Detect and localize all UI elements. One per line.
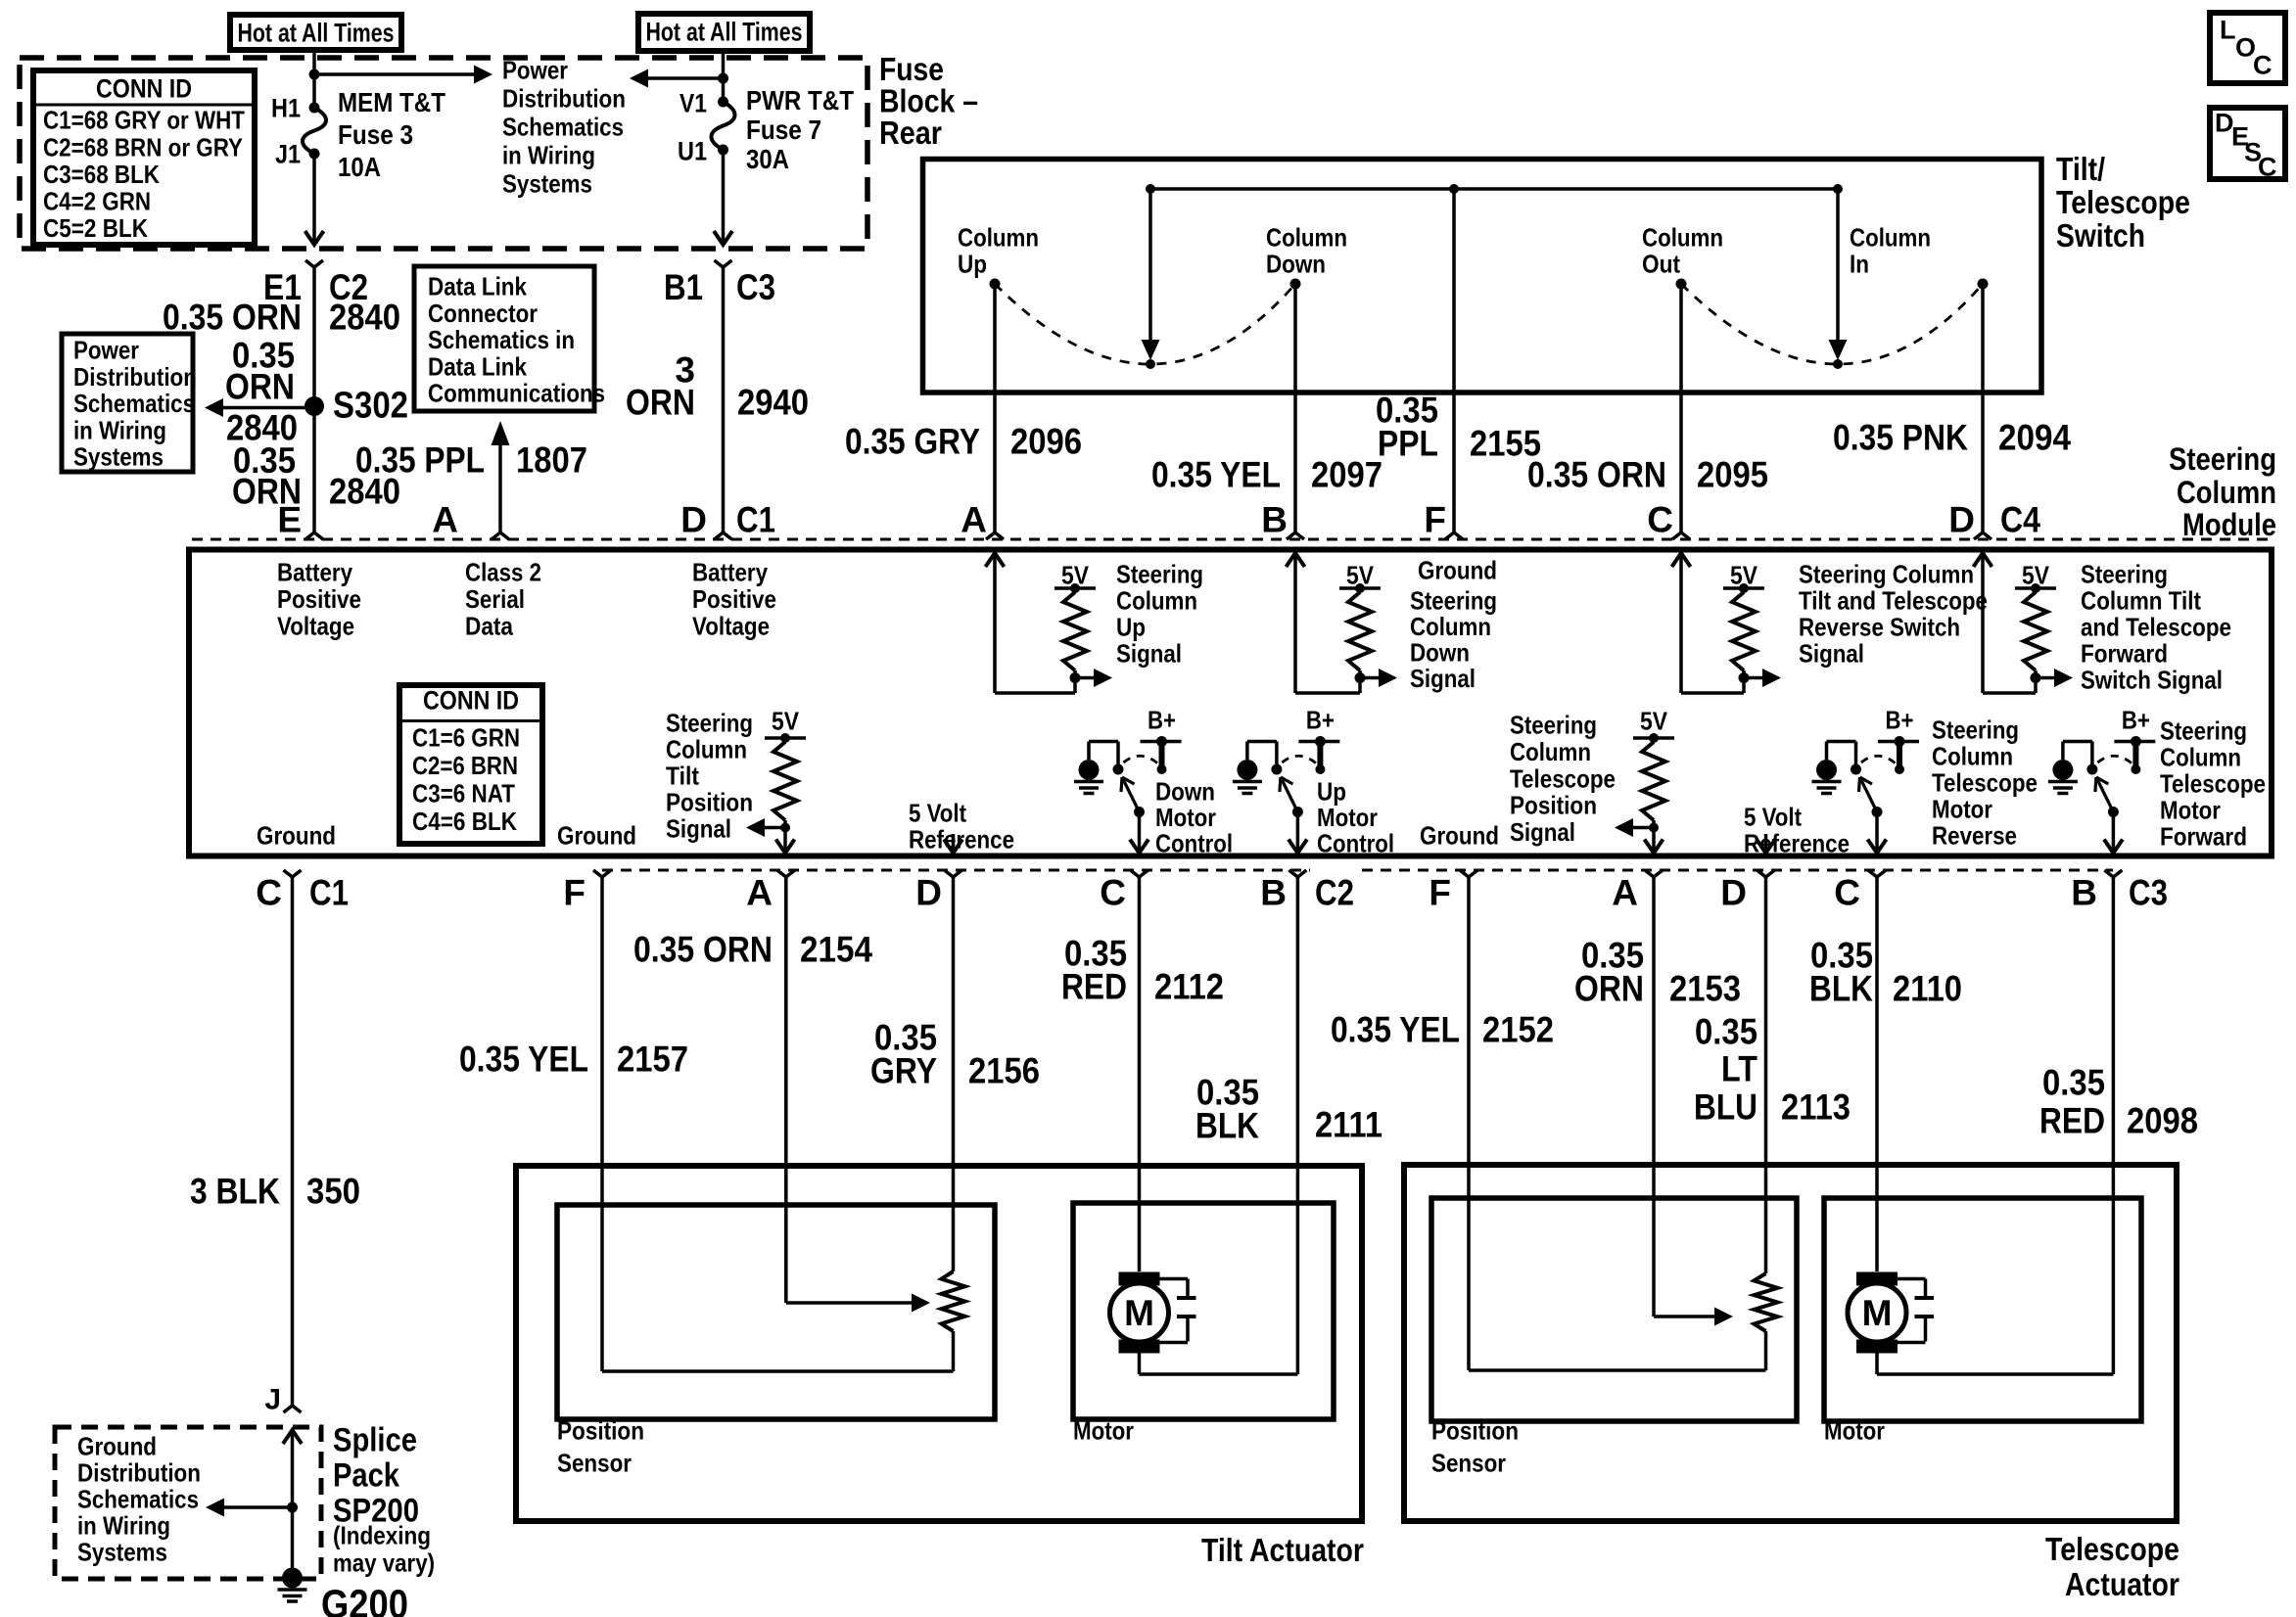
wire 0.35 ORN 2153 (A2) (1652, 877, 1656, 1317)
svg-text:L: L (2220, 15, 2236, 44)
svg-text:2097: 2097 (1311, 455, 1382, 495)
terminal F bottom (563, 870, 611, 913)
label 3 BLK / 350 (190, 1172, 360, 1212)
svg-text:Signal: Signal (1116, 639, 1182, 669)
svg-text:Column: Column (1510, 737, 1591, 766)
fuse F3 MEM T&T (303, 103, 326, 160)
svg-text:RED: RED (1061, 967, 1127, 1007)
svg-text:C: C (1834, 873, 1860, 913)
svg-text:Up: Up (1116, 613, 1146, 642)
telescope motor return wire (1877, 1353, 2113, 1374)
svg-text:MEM T&T: MEM T&T (338, 87, 445, 117)
svg-text:D: D (1948, 500, 1975, 540)
telescope position sensor resistor (1755, 1273, 1778, 1370)
svg-text:Systems: Systems (77, 1538, 167, 1567)
wire fuse7 down to connector (714, 150, 732, 245)
contact Column Up (958, 223, 1039, 290)
resistor pullup forward switch signal (2015, 561, 2073, 687)
svg-text:C1=6 GRN: C1=6 GRN (412, 723, 520, 753)
connector J (284, 1406, 302, 1412)
label 0.35 YEL / 2097 (1151, 455, 1382, 495)
switch internal bus wire (1150, 187, 1838, 191)
svg-text:10A: 10A (338, 152, 381, 182)
tilt position sensor resistor (942, 1271, 965, 1371)
label Motor tilt (1073, 1416, 1134, 1446)
svg-text:Data Link: Data Link (428, 351, 527, 381)
label Steering Column Module (2169, 441, 2276, 542)
svg-text:U1: U1 (678, 136, 707, 165)
svg-text:B+: B+ (1886, 706, 1914, 735)
svg-text:and Telescope: and Telescope (2081, 613, 2231, 642)
svg-text:C3=68 BLK: C3=68 BLK (43, 160, 160, 189)
svg-text:Steering: Steering (1932, 716, 2019, 745)
svg-text:Schematics: Schematics (73, 389, 195, 418)
svg-text:Ground: Ground (77, 1432, 157, 1461)
label indexing may vary (333, 1521, 435, 1578)
svg-text:in Wiring: in Wiring (73, 415, 166, 444)
wire 3 ORN 2940 (722, 267, 726, 532)
svg-text:F: F (1429, 873, 1451, 913)
svg-text:5 Volt: 5 Volt (1744, 803, 1802, 832)
terminal E (277, 500, 323, 540)
svg-text:2094: 2094 (1998, 418, 2071, 458)
svg-text:2096: 2096 (1010, 422, 1082, 462)
svg-text:Sensor: Sensor (557, 1449, 632, 1478)
svg-text:Column: Column (666, 735, 747, 764)
label 0.35 PNK / 2094 (1833, 418, 2071, 458)
svg-text:ORN: ORN (1574, 969, 1644, 1009)
label Tilt/Telescope Switch (2056, 151, 2190, 254)
svg-text:Column: Column (1642, 223, 1723, 253)
wire arrow to Power Distribution Schematics (314, 66, 492, 84)
svg-text:C3: C3 (736, 267, 775, 307)
svg-text:V1: V1 (679, 88, 707, 117)
wire to pullup A (995, 678, 1075, 694)
svg-text:2110: 2110 (1893, 969, 1962, 1009)
wire 0.35 YEL 2097 (1293, 284, 1297, 532)
label Steering Column Tilt Position Signal (666, 709, 753, 844)
svg-text:Steering: Steering (666, 709, 753, 738)
tilt/telescope switch box (923, 160, 2042, 393)
svg-text:Power: Power (502, 56, 568, 85)
svg-text:Signal: Signal (1510, 817, 1575, 847)
terminal D-C1 (680, 500, 775, 540)
label Telescope Actuator (2045, 1531, 2179, 1602)
svg-text:C5=2 BLK: C5=2 BLK (43, 213, 148, 243)
wire fuse3 down to connector (305, 154, 324, 245)
wire 0.35 GRY 2096 (993, 284, 997, 532)
svg-text:0.35 YEL: 0.35 YEL (459, 1039, 588, 1080)
svg-text:Column: Column (1850, 223, 1931, 253)
wire arrow to power distribution schematics box (205, 398, 314, 417)
wire 0.35 PPL 2155 (1452, 189, 1456, 532)
label Steering Column Down Signal (1410, 586, 1497, 694)
switch down motor control (1074, 706, 1182, 854)
ground distribution dashed box (55, 1427, 321, 1579)
svg-text:A: A (432, 500, 458, 540)
resistor telescope position signal (1615, 707, 1674, 854)
svg-text:B: B (2071, 873, 2097, 913)
telescope sensor ground leg (1469, 1368, 1766, 1372)
svg-text:C2=68 BRN or GRY: C2=68 BRN or GRY (43, 132, 243, 162)
svg-text:Motor: Motor (1317, 803, 1378, 832)
wire arrow left to Power Distribution (630, 69, 724, 88)
svg-text:0.35 ORN: 0.35 ORN (163, 298, 302, 338)
svg-text:Ground: Ground (557, 821, 636, 851)
svg-text:In: In (1850, 250, 1869, 279)
svg-text:B1: B1 (664, 267, 703, 307)
svg-text:Up: Up (1317, 777, 1346, 807)
label Class 2 Serial Data (465, 558, 541, 641)
svg-text:0.35 ORN: 0.35 ORN (633, 930, 773, 970)
resistor pullup reverse switch signal (1723, 561, 1781, 687)
wire 0.35 PPL 1807 with up arrow (492, 421, 510, 532)
svg-text:C3: C3 (2129, 873, 2168, 913)
svg-text:may vary): may vary) (333, 1548, 435, 1578)
svg-text:Connector: Connector (428, 299, 538, 328)
telescope actuator box (1404, 1165, 2177, 1521)
label Steering Column Telescope Motor Forward (2160, 716, 2266, 852)
label Motor telescope (1824, 1416, 1885, 1446)
wire 0.35 RED 2112 (C) (1138, 877, 1142, 1271)
svg-text:Schematics in: Schematics in (428, 325, 575, 354)
label 0.35 ORN stack (225, 336, 295, 407)
svg-text:5 Volt: 5 Volt (909, 799, 966, 828)
svg-text:in Wiring: in Wiring (502, 141, 595, 170)
svg-text:ORN: ORN (225, 367, 295, 407)
svg-text:BLK: BLK (1809, 969, 1873, 1009)
telescope sensor wiper arrow (1654, 1308, 1733, 1326)
DESC box (2210, 108, 2285, 181)
svg-text:C: C (2253, 50, 2273, 79)
svg-text:2153: 2153 (1669, 969, 1741, 1009)
svg-text:Battery: Battery (277, 558, 352, 587)
wire to pullup D (1983, 678, 2036, 694)
svg-text:30A: 30A (746, 144, 789, 174)
svg-text:Down: Down (1155, 777, 1215, 807)
label 2840 / 0.35 / ORN stack (226, 408, 302, 512)
svg-text:C4=2 GRN: C4=2 GRN (43, 187, 151, 216)
svg-text:Up: Up (958, 250, 987, 279)
svg-text:Sensor: Sensor (1431, 1449, 1506, 1478)
svg-text:1807: 1807 (516, 440, 587, 481)
svg-text:Column: Column (1410, 612, 1491, 641)
svg-text:Steering: Steering (2169, 441, 2276, 477)
svg-text:F: F (563, 873, 586, 913)
label Battery Positive Voltage 2 (692, 558, 776, 641)
wire 0.35 BLK 2111 (B) (1296, 877, 1300, 1374)
svg-text:Motor: Motor (1155, 803, 1216, 832)
svg-text:2111: 2111 (1315, 1105, 1382, 1145)
label Up Motor Control (1317, 777, 1394, 858)
svg-text:Positive: Positive (692, 584, 776, 614)
svg-text:0.35 PNK: 0.35 PNK (1833, 418, 1968, 458)
svg-text:Steering Column: Steering Column (1799, 560, 1974, 589)
svg-text:Rear: Rear (879, 115, 942, 151)
svg-text:H1: H1 (271, 93, 301, 122)
terminal A bottom (746, 870, 795, 913)
svg-text:G200: G200 (321, 1581, 408, 1617)
svg-text:Hot at All Times: Hot at All Times (646, 17, 803, 46)
svg-text:Serial: Serial (465, 584, 525, 614)
svg-text:Ground: Ground (1418, 556, 1497, 585)
label 3 / ORN / 2940 (626, 350, 809, 423)
label 0.35 YEL / 2157 (459, 1039, 688, 1080)
svg-text:D: D (680, 500, 707, 540)
svg-text:Distribution: Distribution (502, 84, 626, 114)
connector B1-C3 (664, 260, 775, 307)
wire 0.35 LT BLU 2113 (D2) (1764, 877, 1768, 1273)
svg-text:2154: 2154 (800, 930, 872, 970)
svg-text:Telescope: Telescope (1932, 768, 2038, 798)
switch telescope motor reverse (1812, 706, 1920, 854)
label Fuse Block - Rear (879, 51, 978, 151)
svg-text:Motor: Motor (1073, 1416, 1134, 1446)
tilt motor return wire (1140, 1353, 1298, 1374)
svg-text:C: C (256, 873, 282, 913)
svg-text:CONN ID: CONN ID (96, 73, 192, 103)
terminal A2 bottom (1612, 870, 1663, 913)
label 0.35 RED / 2098 (2039, 1063, 2198, 1141)
power distribution schematics box (62, 334, 197, 472)
label 0.35 ORN / 2840 (163, 298, 400, 338)
label Steering Column Tilt and Telescope Forward Switch Signal (2081, 560, 2231, 695)
svg-text:Actuator: Actuator (2065, 1566, 2179, 1602)
module input chevron column up (986, 552, 1005, 693)
svg-text:B+: B+ (1148, 706, 1176, 735)
motor M telescope (1848, 1272, 1934, 1354)
splice S302 (305, 396, 324, 416)
svg-text:B: B (1261, 500, 1288, 540)
svg-text:Position: Position (666, 788, 753, 817)
contact Column In (1850, 223, 1989, 290)
svg-text:2940: 2940 (737, 383, 809, 423)
label 0.35 BLK / 2111 (1195, 1073, 1382, 1146)
tilt sensor ground leg (602, 1369, 954, 1373)
hot at all times box 1 (230, 15, 401, 50)
ground G200 (278, 1568, 307, 1602)
svg-text:Telescope: Telescope (2160, 769, 2266, 799)
svg-text:2840: 2840 (329, 298, 400, 338)
fuse F7 PWR T&T (712, 97, 735, 156)
svg-text:ORN: ORN (626, 383, 695, 423)
svg-text:Hot at All Times: Hot at All Times (238, 18, 395, 47)
label 2840 right (329, 472, 400, 512)
svg-text:B+: B+ (1306, 706, 1335, 735)
label Power Distribution Schematics in Wiring Systems (502, 56, 626, 199)
connector C3 dashed line (1362, 869, 2113, 872)
label 0.35 ORN / 2095 (1527, 455, 1768, 495)
svg-text:2152: 2152 (1482, 1010, 1554, 1050)
label Splice Pack SP200 (333, 1422, 419, 1530)
junction node wire1 (309, 69, 320, 80)
pin H1 (271, 93, 301, 122)
fuse block - rear dashed box (20, 58, 867, 249)
wire 0.35 RED 2098 (B2) (2112, 877, 2116, 1374)
svg-text:0.35 YEL: 0.35 YEL (1331, 1010, 1460, 1050)
svg-text:2112: 2112 (1154, 967, 1224, 1007)
tilt actuator box (516, 1166, 1362, 1521)
svg-text:D: D (915, 873, 942, 913)
terminal B2 bottom (2071, 870, 2168, 913)
svg-text:Telescope: Telescope (2045, 1531, 2179, 1567)
wire 0.35 GRY 2156 (D) (952, 877, 956, 1271)
module input chevron column down (1287, 552, 1305, 693)
contact Column Out (1642, 223, 1723, 290)
svg-text:Tilt and Telescope: Tilt and Telescope (1799, 586, 1988, 616)
svg-text:Position: Position (1431, 1416, 1519, 1446)
splice junction SP200 (287, 1502, 298, 1513)
svg-text:Signal: Signal (666, 814, 731, 844)
svg-text:3 BLK: 3 BLK (190, 1172, 280, 1212)
wire 0.35 ORN 2154 (A) (784, 877, 788, 1303)
contact Column Down (1266, 223, 1347, 290)
svg-text:Module: Module (2182, 507, 2276, 542)
svg-text:Block –: Block – (879, 82, 978, 118)
svg-text:BLU: BLU (1694, 1087, 1757, 1128)
svg-text:Column: Column (1266, 223, 1347, 253)
svg-text:Steering: Steering (1510, 711, 1597, 740)
svg-text:Control: Control (1317, 829, 1394, 858)
svg-text:Data: Data (465, 611, 513, 640)
label 0.35 GRY / 2156 (870, 1018, 1040, 1091)
wire 0.35 BLK 2110 (C3w) (1875, 877, 1879, 1271)
label 0.35 YEL / 2152 (1331, 1010, 1554, 1050)
svg-text:Steering: Steering (2160, 716, 2247, 746)
svg-text:(Indexing: (Indexing (333, 1521, 431, 1550)
wire 0.35 PNK 2094 (1981, 284, 1985, 532)
label PWR T&T Fuse 7 30A (746, 85, 854, 174)
svg-text:C: C (1100, 873, 1126, 913)
svg-text:Fuse 3: Fuse 3 (338, 119, 413, 150)
label Battery Positive Voltage 1 (277, 558, 361, 641)
tilt motor box (1073, 1203, 1334, 1419)
svg-text:Forward: Forward (2081, 639, 2168, 669)
bus junction dots (1146, 184, 1843, 194)
wire from Hot at All Times 2 down (722, 51, 726, 102)
tilt sensor wiper arrow (786, 1294, 930, 1313)
svg-text:Switch: Switch (2056, 217, 2145, 254)
svg-text:2095: 2095 (1697, 455, 1768, 495)
conn id table (module) (399, 685, 542, 844)
svg-text:Ground: Ground (1420, 821, 1499, 851)
label Position Sensor tilt (557, 1416, 644, 1478)
label 5 Volt Reference right (1744, 803, 1850, 858)
label J (264, 1384, 281, 1416)
svg-text:C2: C2 (1315, 873, 1354, 913)
svg-text:0.35: 0.35 (1695, 1012, 1757, 1052)
label 0.35 LT BLU / 2113 (1694, 1012, 1851, 1128)
svg-text:2113: 2113 (1781, 1087, 1851, 1128)
pin V1 (679, 88, 707, 117)
svg-text:Tilt: Tilt (666, 762, 699, 791)
label 0.35 PPL / 2155 (1376, 391, 1541, 464)
label 5 Volt Reference left (909, 799, 1014, 855)
label Steering Column Tilt and Telescope Reverse Switch Signal (1799, 560, 1988, 669)
svg-text:C1=68 GRY or WHT: C1=68 GRY or WHT (43, 106, 245, 135)
svg-text:5V: 5V (772, 707, 800, 736)
svg-text:0.35 ORN: 0.35 ORN (1527, 455, 1666, 495)
module output chevron D2 (5v ref) (1757, 834, 1775, 854)
label 0.35 ORN / 2153 (1574, 936, 1741, 1009)
svg-text:Distribution: Distribution (77, 1458, 201, 1488)
svg-text:2156: 2156 (968, 1051, 1040, 1091)
terminal F (switch common) (1424, 500, 1463, 540)
svg-text:Communications: Communications (428, 379, 605, 408)
svg-text:5V: 5V (1640, 707, 1668, 736)
svg-text:Voltage: Voltage (692, 611, 770, 640)
wire 3 BLK 350 (291, 877, 295, 1406)
label Ground (module pin C) (257, 821, 336, 851)
pin J1 (275, 139, 301, 168)
conn id table (fuse block) (33, 70, 255, 245)
svg-text:M: M (1862, 1293, 1893, 1333)
svg-text:B: B (1260, 873, 1287, 913)
svg-text:Schematics: Schematics (77, 1485, 199, 1514)
svg-text:0.35 YEL: 0.35 YEL (1151, 455, 1281, 495)
svg-text:Out: Out (1642, 250, 1680, 279)
svg-text:0.35 PPL: 0.35 PPL (355, 440, 485, 481)
label 0.35 BLK / 2110 (1809, 936, 1962, 1009)
svg-text:Down: Down (1266, 250, 1326, 279)
label Ground (module pin F2) (1420, 821, 1499, 851)
svg-text:C: C (2258, 152, 2277, 181)
svg-text:A: A (1612, 873, 1638, 913)
svg-text:BLK: BLK (1195, 1106, 1259, 1146)
svg-text:Splice: Splice (333, 1422, 417, 1459)
label Ground (module pin F lower) (557, 821, 636, 851)
tilt position sensor box (557, 1205, 995, 1419)
label Steering Column Telescope Position Signal (1510, 711, 1616, 847)
terminal B (column down) (1261, 500, 1304, 540)
wire 0.35 YEL 2152 (F2) (1467, 877, 1471, 1370)
label Steering Column Up Signal (1116, 560, 1203, 669)
svg-text:Position: Position (557, 1416, 644, 1446)
svg-text:Systems: Systems (73, 442, 164, 472)
terminal A (column up) (961, 500, 1004, 540)
resistor tilt position signal (746, 707, 806, 854)
svg-text:J: J (264, 1384, 281, 1416)
label MEM T&T Fuse 3 10A (338, 87, 445, 182)
svg-text:C1: C1 (736, 500, 775, 540)
svg-text:Battery: Battery (692, 558, 768, 587)
switch wiper arrow right (1829, 189, 1848, 369)
label Position Sensor telescope (1431, 1416, 1519, 1478)
module input chevron column out (1672, 552, 1691, 693)
label Tilt Actuator (1201, 1532, 1364, 1568)
svg-text:E: E (277, 500, 302, 540)
label Steering Column Telescope Motor Reverse (1932, 716, 2038, 851)
svg-text:A: A (961, 500, 987, 540)
svg-text:Switch Signal: Switch Signal (2081, 666, 2223, 695)
resistor pullup column up signal (1054, 561, 1112, 687)
svg-text:Motor: Motor (2160, 796, 2221, 825)
svg-text:Positive: Positive (277, 584, 361, 614)
wire from Hot at All Times 1 down (312, 50, 316, 108)
svg-text:Class 2: Class 2 (465, 558, 541, 587)
svg-text:D: D (1720, 873, 1747, 913)
svg-text:Signal: Signal (1799, 639, 1864, 669)
svg-text:J1: J1 (275, 139, 301, 168)
svg-text:Schematics: Schematics (502, 113, 624, 142)
wire arrow ground distribution (206, 1499, 293, 1517)
svg-text:Down: Down (1410, 638, 1470, 668)
wire to G200 (291, 1507, 295, 1568)
wire to pullup C (1681, 678, 1744, 694)
svg-text:Column: Column (958, 223, 1039, 253)
switch telescope motor forward (2048, 706, 2156, 854)
terminal B bottom (1260, 870, 1354, 913)
